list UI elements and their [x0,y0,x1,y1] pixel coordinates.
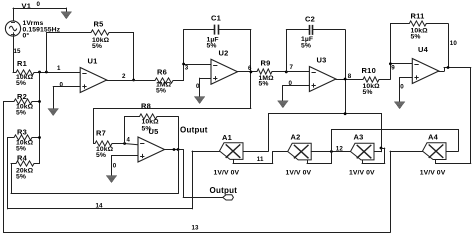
node 11 label [257,156,264,163]
wire to output connector [183,149,223,198]
svg-text:C2: C2 [305,14,315,23]
svg-text:1V/V 0V: 1V/V 0V [214,169,240,176]
node 3 label [185,65,189,72]
wire A2 y input [307,151,332,164]
wire A4 y input from node 10 [435,159,471,164]
wire node 10 from U4 output [438,67,471,71]
svg-text:R1: R1 [17,59,27,68]
wire node 2 [106,80,155,82]
wire U5 plus to ground [111,155,138,176]
node 4 label [127,138,131,144]
wire node 8 distribution [268,113,382,115]
resistor R10 [363,77,391,82]
value R5 [92,37,110,50]
wire U1 plus input to ground [53,86,81,109]
svg-text:U5: U5 [149,127,159,136]
ground U4 plus [394,102,405,109]
svg-text:0: 0 [113,162,117,169]
wire R5 right riser to node 2 [133,32,135,80]
output connector symbol [223,195,234,200]
value A2 [286,169,312,176]
label R6 [157,68,167,77]
label R4 [17,154,28,163]
wire node 8 [336,79,364,81]
multiplier A1 [220,143,244,160]
svg-text:R3: R3 [17,128,27,137]
value R10 [363,83,381,96]
svg-text:R6: R6 [157,68,167,77]
junction dot R3 [38,136,41,139]
wire U5 output [164,149,184,151]
svg-text:U1: U1 [88,57,98,66]
wire R5 left riser [46,32,91,72]
wire A1 y input node 11 [233,151,289,164]
svg-text:U4: U4 [418,45,429,54]
label A2 [291,133,301,142]
svg-text:0: 0 [196,83,200,90]
svg-text:0: 0 [60,81,64,88]
label C2 [305,14,315,23]
node 10 label [450,40,458,47]
wire U5 output to R4 feedback [11,149,179,194]
wire node 13 rail [3,101,5,233]
wire V1 top to ground node 0 [13,8,67,22]
svg-text:14: 14 [96,202,104,209]
wire node 13 bottom run [3,232,390,234]
svg-text:2: 2 [122,73,126,80]
node 8 label [348,73,352,80]
value R3 [16,140,34,153]
svg-text:5%: 5% [363,89,373,96]
wire node 9 riser [390,23,413,79]
wire R8 left riser [124,116,140,144]
junction dot node 3 [182,63,185,66]
svg-text:R10: R10 [362,66,377,75]
svg-text:V1: V1 [22,2,32,11]
node 13 label [192,225,200,232]
svg-text:15: 15 [14,48,22,55]
svg-text:1V/V 0V: 1V/V 0V [349,169,375,176]
wire A3 x input from node 8 [374,113,382,152]
svg-text:5%: 5% [301,42,311,49]
resistor R2 [3,99,40,104]
svg-text:11: 11 [257,156,264,163]
resistor R9 [257,69,310,74]
wire node 3 riser [183,29,211,80]
resistor R7 [93,141,138,146]
wire A4 x input from node 12 [446,129,459,152]
value A3 [349,169,375,176]
svg-text:5%: 5% [207,42,217,49]
op-amp U1 [80,68,107,93]
node 14 label [96,202,104,209]
svg-text:12: 12 [336,145,344,152]
wire A2 x input node 12 [311,151,351,153]
AC voltage source V1 [5,21,20,37]
node 0 label U4 [400,83,404,90]
node 15 label [14,48,22,55]
wire U2 plus to ground [199,78,211,97]
svg-text:5%: 5% [156,88,166,95]
junction dot node 6 [250,71,253,74]
label A3 [354,132,364,141]
ground U5 plus [106,176,117,183]
wire node 6 [237,71,257,73]
label Output connector [210,186,238,195]
junction dot node 12 [330,150,333,153]
svg-text:5%: 5% [16,110,26,117]
svg-text:3: 3 [185,65,189,72]
label C1 [211,14,221,23]
node 9 label [391,64,395,71]
label U5 [149,127,159,136]
value label V1 [23,20,61,40]
value R1 [16,74,34,87]
wire R11 right riser node 10 [448,23,450,68]
wire R8 right riser [157,116,179,149]
ground top right of V1 [61,8,72,19]
wire A4 output node 13 riser [390,151,392,233]
wire U4 plus to ground [399,77,413,102]
value R8 [142,119,160,133]
junction dot node 7 [285,71,288,74]
node 12 label [336,145,344,152]
svg-text:10kΩ: 10kΩ [142,119,160,126]
node 0 label U3 [289,80,293,87]
ground U3 plus [278,101,289,108]
svg-text:U2: U2 [219,49,229,58]
resistor R8 [140,114,158,119]
label R9 [261,58,271,67]
junction dot U5 output b [177,148,180,151]
value A1 [214,169,240,176]
label R3 [17,128,27,137]
resistor R6 [155,78,184,83]
svg-text:4: 4 [127,138,131,144]
value R2 [16,104,34,117]
wire A4 output to node 13 [390,151,423,153]
op-amp U4 [412,59,439,84]
value R7 [96,146,114,159]
label R8 [141,102,151,111]
svg-text:9: 9 [391,64,395,71]
svg-text:6: 6 [248,65,252,72]
svg-text:13: 13 [192,225,200,232]
resistor R4 [11,161,40,166]
wire node 12 distribution [331,129,459,131]
junction dot R2 rail at node 1 [38,71,41,74]
svg-text:1: 1 [57,65,61,72]
value R9 [259,75,275,88]
wire node 6 long run to R7 [93,108,251,144]
capacitor C1 [183,25,251,35]
value C2 [301,36,313,49]
node 0 label top [37,1,41,8]
wire U3 plus to ground [283,85,310,101]
wire node 10 right riser down [470,67,472,164]
label R2 [17,92,27,101]
junction dot R5 riser at node 1 [45,71,48,74]
op-amp U5 [138,137,165,162]
node 0 label U1 [60,81,64,88]
svg-text:5%: 5% [92,43,102,50]
svg-text:A1: A1 [222,133,232,142]
svg-text:U3: U3 [317,55,327,64]
svg-text:R9: R9 [261,58,271,67]
svg-text:R8: R8 [141,102,151,111]
junction dot node 10 [447,66,450,69]
svg-text:0: 0 [289,80,293,87]
svg-text:R11: R11 [411,11,425,20]
label R10 [362,66,377,75]
svg-text:R4: R4 [17,154,28,163]
value R4 [16,168,34,181]
svg-text:0: 0 [37,1,41,8]
multiplier A2 [288,143,312,160]
wire C2 right riser to node 8 [345,30,347,115]
op-amp U3 [309,67,336,92]
wire node 12 riser [331,129,333,152]
junction dot node 8 [344,78,347,81]
resistor R11 [390,21,448,26]
svg-text:5%: 5% [411,34,421,41]
svg-text:5%: 5% [96,152,106,159]
resistor R5 [91,30,134,35]
wire C1 right riser [250,29,252,109]
label U1 [88,57,98,66]
label U4 [418,45,429,54]
svg-text:8: 8 [348,73,352,80]
wire A1 x input from node 8 [243,113,269,151]
svg-text:7: 7 [290,64,294,71]
svg-text:R7: R7 [96,129,106,138]
junction dot R2 [38,100,41,103]
node 7 label [290,64,294,71]
wire V1 bottom node 15 [13,36,15,73]
node 6 label [248,65,252,72]
value A4 [420,169,446,176]
node 2 label [122,73,126,80]
svg-text:Output: Output [210,186,238,195]
op-amp U2 [211,59,238,84]
junction dot node 2 [132,79,135,82]
svg-text:R5: R5 [94,19,104,28]
svg-text:5%: 5% [16,146,26,153]
svg-text:1V/V 0V: 1V/V 0V [420,169,446,176]
value R6 [156,82,172,95]
label U3 [317,55,327,64]
resistor R1 [13,70,81,75]
svg-text:5%: 5% [259,80,269,87]
svg-text:C1: C1 [211,14,221,23]
svg-text:R2: R2 [17,92,27,101]
label R7 [96,129,106,138]
svg-text:Output: Output [180,126,208,135]
wire summing rail node 1 [39,72,41,164]
junction dot node 9 [389,62,392,65]
svg-text:10: 10 [450,40,458,47]
capacitor C2 [286,25,346,72]
node 0 label U2 [196,83,200,90]
svg-text:0: 0 [400,83,404,90]
value R11 [411,27,429,40]
ground U2 plus [194,97,205,104]
multiplier A4 [423,143,447,160]
svg-text:5%: 5% [16,80,26,87]
svg-text:A4: A4 [428,132,439,141]
label R11 [411,11,425,20]
node 0 label U5 [113,162,117,169]
wire A1 output node 14 [7,151,220,210]
label A4 [428,132,439,141]
junction dot node 4 [123,142,126,145]
svg-text:1V/V 0V: 1V/V 0V [286,169,312,176]
svg-text:A3: A3 [354,132,364,141]
value C1 [207,36,219,49]
node 1 label [57,65,61,72]
wire A3 y input jog [362,148,386,164]
ground U1 plus [48,109,59,116]
junction dot U5 output a [173,148,176,151]
label V1 [22,2,32,11]
label A1 [222,133,232,142]
wire node 14 rail [7,137,9,209]
multiplier A3 [351,143,375,160]
label R5 [94,19,104,28]
label Output near U5 [180,126,208,135]
label U2 [219,49,229,58]
svg-text:A2: A2 [291,133,301,142]
svg-text:5%: 5% [16,174,26,181]
svg-text:0°: 0° [23,32,30,40]
resistor R3 [7,135,40,140]
label R1 [17,59,27,68]
junction dot node 8 distribution [344,112,347,115]
junction dot A3 inputs [380,147,383,150]
